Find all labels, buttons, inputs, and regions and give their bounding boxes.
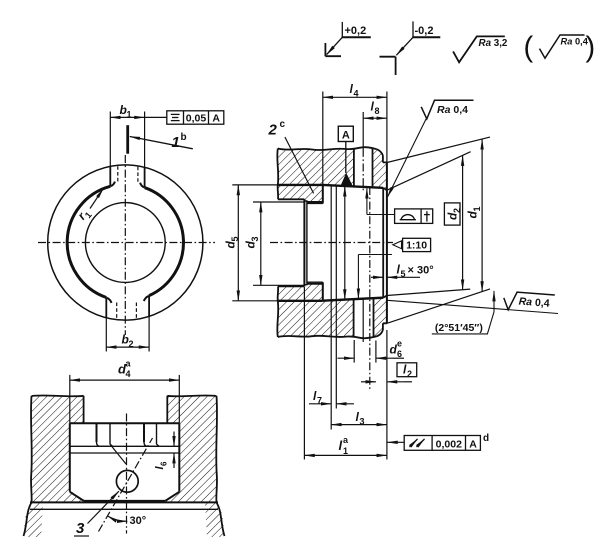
dimension b2 [106, 346, 149, 348]
svg-text:Ra 0,4: Ra 0,4 [561, 37, 589, 47]
svg-text:4: 4 [354, 89, 359, 99]
angle callout underline leader [432, 312, 494, 334]
dimension d6 extension lines [353, 340, 355, 363]
edge symbol -0,2 leader arrow [396, 37, 413, 55]
groove line left [330, 185, 332, 429]
dimension l1 extension right [386, 330, 388, 460]
slope tolerance frame [404, 436, 480, 451]
bottom slot hidden walls [116, 303, 118, 319]
part od step right top [383, 156, 387, 163]
slot channel centerline [362, 112, 364, 149]
edge symbol +0,2 corner glyph [325, 43, 341, 56]
oblique extension d2 bottom [387, 289, 470, 295]
left pocket edge top [278, 198, 304, 200]
surface finish (Ra 0,4) symbol [540, 35, 585, 58]
left pocket edge bottom [278, 285, 304, 287]
datum A triangle [341, 173, 353, 186]
svg-text:2: 2 [268, 122, 278, 139]
label r1 leader [90, 189, 103, 209]
hole 3 inclined axis [99, 438, 153, 532]
hole axis centerline vertical [369, 187, 371, 389]
dimension l6 arrows [173, 432, 175, 447]
slot channel walls top [353, 149, 355, 187]
part top right shoulder [377, 149, 383, 155]
oblique extension d2 top [387, 152, 471, 191]
groove line right [335, 186, 337, 409]
part bottom right shoulder [377, 330, 383, 336]
svg-text:3: 3 [360, 417, 365, 427]
edge symbol -0,2 shelf [412, 36, 440, 38]
svg-text:0,002: 0,002 [436, 438, 462, 450]
hub band chamfer left [70, 492, 84, 501]
right block inner edge [166, 396, 168, 424]
crowning tolerance frame [395, 209, 433, 224]
30 degree arc [108, 516, 128, 521]
bottom slot left horn [107, 298, 112, 303]
part break line left bottom [277, 286, 278, 337]
hole 3 circle [116, 470, 138, 492]
svg-text:× 30°: × 30° [408, 265, 434, 277]
dimension d5 [237, 185, 239, 301]
svg-text:30°: 30° [130, 515, 147, 527]
svg-text:(2°51′45″): (2°51′45″) [435, 322, 483, 334]
oblique extension d1 bottom [387, 289, 490, 323]
svg-text:1:10: 1:10 [406, 239, 427, 251]
front view horizontal centerline [38, 242, 215, 244]
note 1b leader [130, 137, 193, 149]
svg-text:b: b [181, 132, 187, 143]
svg-text:l: l [339, 438, 343, 453]
edge symbol +0,2 shelf [342, 36, 371, 38]
Ra 0,4 right leader [387, 300, 558, 313]
dagger symbol [426, 211, 428, 221]
bent leader to taper bottom [358, 254, 392, 256]
svg-text:-0,2: -0,2 [415, 25, 434, 37]
svg-text:6: 6 [397, 349, 402, 359]
dimension b1 leader to frame [145, 116, 167, 118]
taper 1:10 hollow arrow [393, 241, 402, 249]
bottom view hatch left base [24, 502, 44, 537]
dimension l2 arrows [361, 381, 376, 383]
svg-text:1: 1 [343, 446, 348, 456]
left block inner edge [83, 396, 85, 424]
section axis centerline [270, 242, 393, 244]
bottom view slot 2 [143, 423, 145, 442]
svg-text:2: 2 [407, 369, 412, 379]
svg-text:e: e [397, 339, 402, 349]
svg-text:1: 1 [472, 206, 482, 211]
bottom slot left wall [105, 298, 107, 318]
svg-text:2: 2 [452, 208, 462, 213]
left block top break edge [32, 394, 84, 397]
edge symbol +0,2 leader arrow [327, 37, 343, 54]
dimension l4 extension left [322, 92, 324, 185]
crowning frame leader [367, 214, 395, 216]
crowning symbol [400, 215, 416, 220]
edge tick for note 1 [126, 125, 129, 154]
svg-text:3: 3 [250, 236, 260, 241]
svg-text:A: A [469, 438, 477, 450]
datum A box [338, 126, 353, 141]
front view bore circle right arc [145, 188, 184, 296]
taper bore top line [323, 185, 383, 188]
dimension b1 [110, 116, 144, 118]
front view inner circle d3 [85, 203, 165, 283]
dimension d2 text [445, 208, 461, 220]
front view bore circle left arc [67, 186, 110, 297]
taper 1:10 frame [403, 238, 431, 251]
hub band chamfer right [165, 492, 179, 501]
left block outer break edge [24, 396, 32, 536]
bore step vertical bottom [322, 282, 324, 301]
edge symbol -0,2 corner glyph [380, 57, 396, 75]
top slot hidden walls [117, 166, 119, 182]
svg-text:Ra 0,4: Ra 0,4 [518, 295, 550, 309]
dimension l1 [304, 454, 387, 456]
symmetry symbol [171, 113, 180, 115]
front view vertical centerline [124, 155, 126, 335]
top slot left wall [109, 166, 111, 186]
top slot right horn [140, 183, 144, 188]
seat line bottom across band [278, 300, 323, 302]
hub band bottom edge [84, 500, 166, 502]
slope symbol [410, 439, 418, 447]
stray slot line [110, 444, 126, 464]
note 3 leader [88, 491, 119, 523]
svg-text:2: 2 [129, 339, 134, 349]
edge symbol -0,2 tick [412, 21, 414, 37]
svg-text:7: 7 [317, 396, 322, 406]
dimension d4 [70, 379, 180, 381]
seat line top across band [278, 184, 323, 186]
Ra 0,4 top leader [388, 119, 427, 197]
section hatch bottom-left [278, 284, 354, 337]
svg-text:d: d [483, 433, 489, 444]
taper top chamfer [383, 188, 387, 190]
svg-text:c: c [280, 119, 286, 130]
dimension d2 [462, 156, 464, 290]
svg-text:Ra 0,4: Ra 0,4 [437, 104, 468, 116]
dimension l1 extension left [303, 287, 305, 460]
part bore chamfer edge right [382, 188, 384, 298]
base line upper [30, 501, 218, 503]
bore mouth chamfer line [306, 202, 308, 284]
dimension d4 extension lines [69, 375, 71, 423]
dimension l7 arrows [309, 403, 331, 405]
edge symbol +0,2 tick [341, 22, 343, 37]
bore d3 top lines [307, 201, 323, 203]
dimension d6 arrows [338, 357, 355, 359]
top slot left horn [111, 182, 115, 187]
Ra 0,4 right symbol [503, 291, 555, 313]
dimension l4 [323, 96, 387, 98]
dimension d1 [481, 139, 483, 291]
hub band step lines [70, 445, 180, 447]
bore d3 bottom lines [307, 283, 323, 285]
slope tolerance leader [387, 441, 404, 443]
bottom view hatch left block [31, 395, 84, 502]
oblique extension d1 top [387, 137, 490, 162]
dimension l6 text [154, 461, 168, 470]
taper bottom chamfer [383, 296, 387, 298]
crowning frame arrow to taper [366, 188, 368, 214]
right block outer break edge [216, 396, 224, 536]
dimension d3 [260, 202, 262, 285]
dimension l8 [363, 117, 387, 119]
svg-text:(: ( [524, 32, 534, 64]
dimension l3 [331, 424, 387, 426]
bottom view slot 1 [96, 423, 98, 442]
dimension d5 text [224, 236, 240, 248]
svg-text:1: 1 [127, 109, 132, 119]
label r1 text [75, 206, 94, 224]
bottom slot right horn [144, 296, 149, 301]
front view outer circle [48, 165, 203, 320]
hole edge line in channel [362, 298, 364, 343]
svg-text:6: 6 [160, 461, 169, 466]
part break line left top [277, 149, 278, 200]
svg-text:1: 1 [172, 134, 180, 151]
hole channel walls bottom [353, 299, 355, 337]
right block top break edge [167, 394, 216, 397]
part od step right bottom [383, 323, 387, 330]
bore step vertical top [322, 185, 324, 204]
bore mouth face left [303, 199, 305, 286]
svg-text:Ra 3,2: Ra 3,2 [479, 38, 508, 49]
part break line bottom [278, 336, 377, 338]
bottom view hatch right base [205, 502, 225, 537]
dimension b1 extension lines [109, 112, 111, 167]
Ra 0,4 top symbol [421, 100, 473, 119]
part right face [386, 162, 388, 323]
svg-text:+0,2: +0,2 [345, 25, 367, 37]
base line lower [30, 508, 218, 510]
svg-text:4: 4 [126, 369, 131, 379]
section hatch top-left [278, 149, 354, 203]
svg-text:0,05: 0,05 [186, 112, 207, 124]
tolerance frame symmetry 0,05 A box [167, 111, 224, 124]
dimension d1 text [466, 206, 482, 218]
section hatch bottom-right [374, 296, 387, 337]
svg-text:A: A [212, 112, 220, 124]
bottom slot right wall [148, 296, 150, 317]
dimension b2 extension lines [105, 318, 107, 352]
taper bore bottom line [323, 298, 383, 301]
hub band right edge [178, 423, 180, 492]
dimension l4 extension right [386, 92, 388, 163]
dimension l2 frame [397, 363, 417, 377]
svg-text:5: 5 [401, 269, 406, 279]
dimension l5x30 arrows [371, 276, 383, 278]
bottom view hatch right block [165, 395, 217, 502]
dimension d5 extension lines [232, 184, 277, 186]
note 3 underline [74, 535, 89, 537]
bottom view vertical centerline [126, 414, 128, 534]
note 2c leader [285, 137, 314, 193]
pocket step bottom [304, 284, 307, 287]
svg-text:3: 3 [76, 520, 85, 537]
inner taper dimension line [344, 186, 346, 300]
svg-text:A: A [342, 129, 350, 141]
section hatch top-right [373, 149, 387, 191]
surface finish Ra 3,2 symbol [453, 36, 505, 62]
dimension d2 frame [444, 203, 460, 225]
svg-text:8: 8 [375, 106, 380, 116]
svg-text:5: 5 [230, 236, 240, 241]
dimension d3 extension lines [253, 201, 305, 203]
top slot right wall [144, 167, 146, 187]
hub band left edge [69, 423, 71, 492]
svg-text:): ) [586, 32, 596, 64]
datum A stem [345, 142, 347, 174]
dimension d3 text [244, 236, 260, 248]
pocket step top [304, 199, 307, 202]
hub band top edge [70, 422, 180, 424]
part break line top [278, 147, 377, 150]
